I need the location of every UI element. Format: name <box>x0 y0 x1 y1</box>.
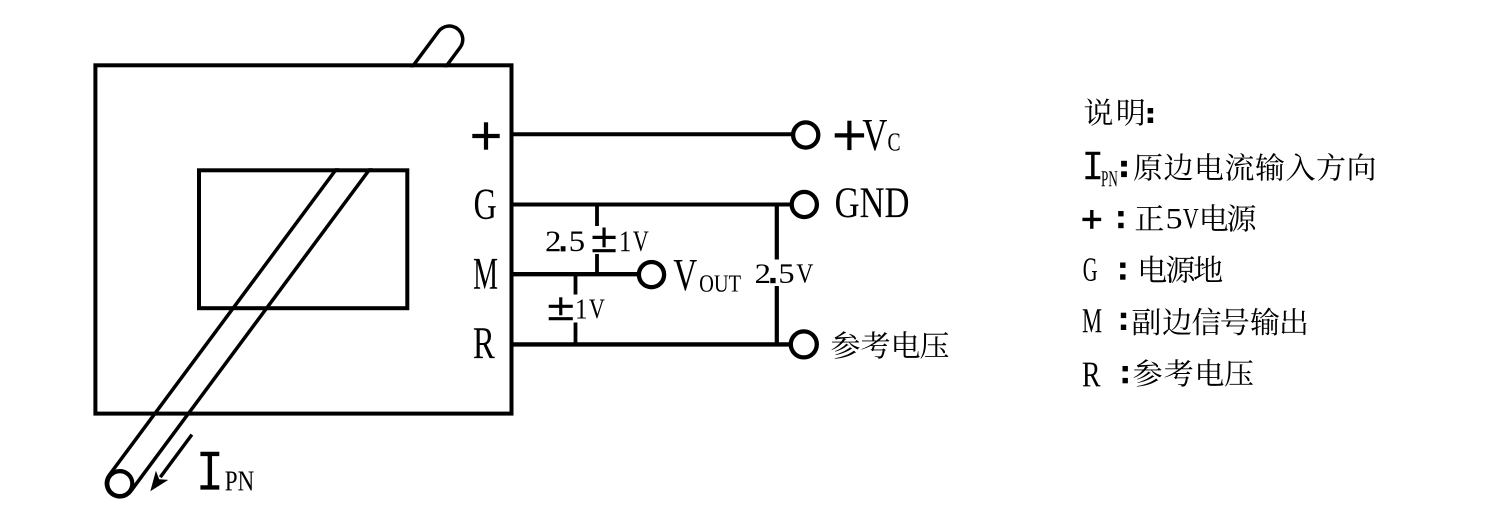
label 参考电压 at terminal <box>831 331 859 358</box>
label 2.5±1V <box>547 232 560 252</box>
label GND <box>836 188 858 217</box>
wire +Vc <box>511 132 793 136</box>
measure tick G-M <box>595 205 599 275</box>
pin label G <box>475 189 496 219</box>
wire primary conductor rod (through-hole bar) <box>120 40 450 484</box>
label ±1V <box>559 297 562 315</box>
aperture window <box>199 170 407 308</box>
terminal circle +Vc <box>793 122 818 147</box>
label background ±1V <box>545 295 608 323</box>
label 2.5V <box>756 264 769 283</box>
wire GND-to-R vertical link <box>775 205 779 345</box>
pin label M <box>474 259 497 289</box>
wire M output <box>511 272 640 276</box>
legend line G <box>1084 258 1097 281</box>
legend line + <box>1082 218 1101 221</box>
sensor body outline <box>95 65 511 413</box>
label background 2.5V <box>750 260 817 287</box>
label Vout <box>674 260 697 291</box>
legend title 说明： <box>1085 98 1113 125</box>
terminal circle GND <box>792 192 817 217</box>
legend line Ipn <box>1085 152 1100 180</box>
label +Vc <box>835 133 864 137</box>
terminal circle reference <box>791 331 817 357</box>
wire R reference <box>511 342 790 346</box>
pin label + <box>472 134 499 138</box>
label background 2.5±1V <box>543 226 653 254</box>
pin label R <box>474 328 495 358</box>
measure tick M-R <box>574 274 578 344</box>
current direction arrow <box>160 435 192 478</box>
legend line R <box>1083 363 1101 387</box>
wire GND <box>511 203 792 207</box>
label Ipn <box>200 452 219 490</box>
terminal circle Vout <box>639 262 664 287</box>
legend line M <box>1083 309 1102 332</box>
rod hidden section mask (inside sensor body) <box>299 67 471 168</box>
rod end face circle <box>107 471 132 496</box>
